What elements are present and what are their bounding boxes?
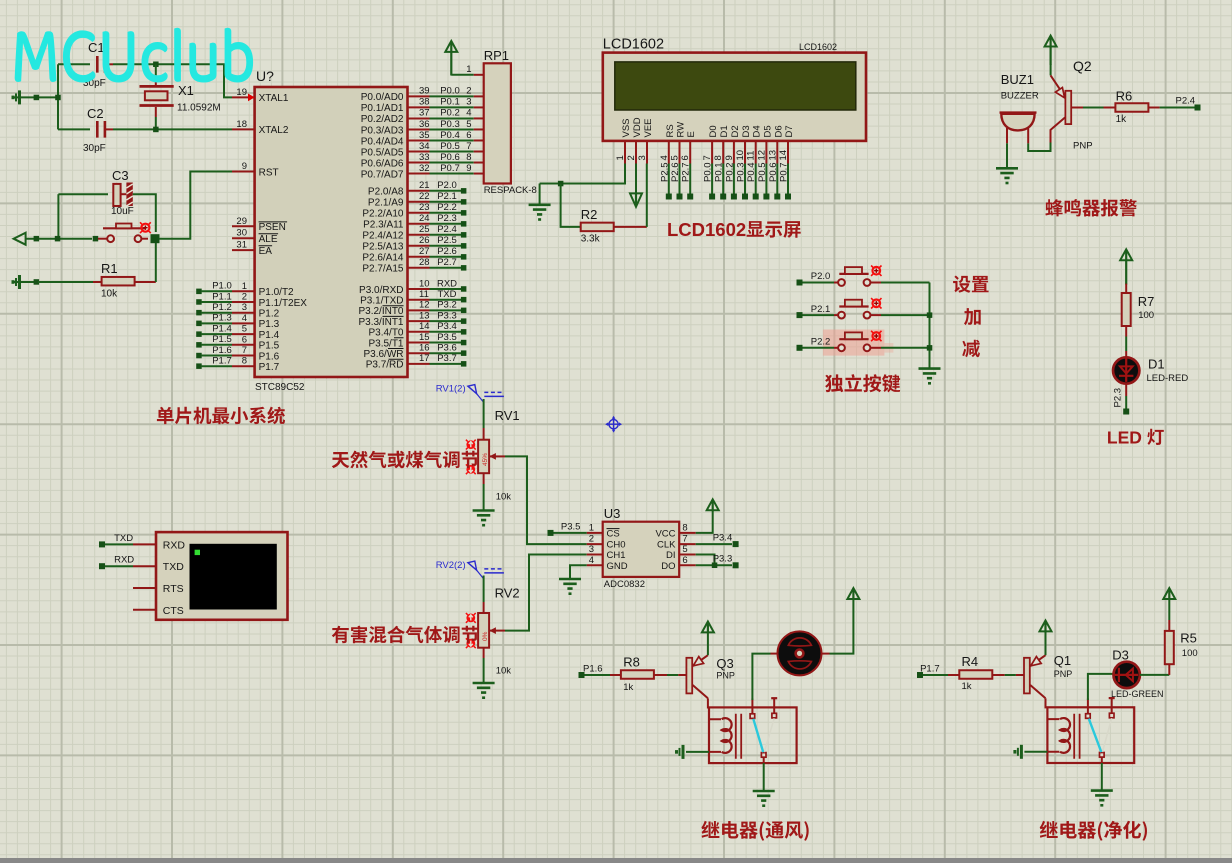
push button (P2.1) — [803, 300, 882, 319]
ground (U3) — [559, 579, 581, 595]
svg-text:LED: LED — [1107, 428, 1142, 448]
svg-text:1k: 1k — [1116, 114, 1128, 125]
svg-text:5: 5 — [682, 544, 687, 555]
svg-text:BUZ1: BUZ1 — [1001, 72, 1034, 87]
resistor R8 1k — [585, 655, 687, 694]
svg-text:P0.4: P0.4 — [746, 162, 757, 182]
svg-text:9: 9 — [724, 155, 735, 160]
svg-text:Q1: Q1 — [1054, 653, 1071, 668]
push button (P2.2) — [803, 332, 882, 351]
svg-text:CLK: CLK — [657, 540, 676, 551]
interactive marker (button P2.2) — [871, 331, 881, 341]
svg-text:P0.0/AD0: P0.0/AD0 — [361, 92, 404, 103]
svg-text:P2.0: P2.0 — [437, 180, 457, 191]
ground (RV1) — [473, 511, 495, 527]
svg-text:Q2: Q2 — [1073, 58, 1092, 74]
label LED灯 — [1107, 428, 1164, 448]
crystal X1 — [140, 64, 221, 129]
svg-text:P0.1: P0.1 — [714, 162, 725, 182]
svg-text:RV1: RV1 — [495, 408, 520, 423]
resistor R7 100 — [1122, 284, 1155, 337]
relay (purify) body — [1047, 707, 1134, 763]
push button (reset) — [98, 224, 148, 243]
svg-text:2: 2 — [242, 292, 247, 303]
svg-text:3.3k: 3.3k — [581, 234, 601, 245]
svg-text:15: 15 — [419, 332, 430, 343]
node P2.1 — [797, 304, 831, 318]
svg-text:28: 28 — [419, 257, 430, 268]
svg-text:RTS: RTS — [163, 583, 184, 595]
wire C1 to XTAL1 — [113, 62, 232, 98]
power terminal (Q3) — [702, 622, 714, 656]
ground (relay 2) — [1091, 791, 1113, 807]
svg-text:P1.0: P1.0 — [212, 281, 232, 292]
relay (purify) switch blade — [1089, 718, 1112, 752]
svg-text:30pF: 30pF — [83, 143, 106, 154]
svg-text:23: 23 — [419, 202, 430, 213]
power terminal (Q1) — [1040, 621, 1052, 656]
selection highlight (button 3) — [823, 330, 885, 356]
ground (relay 1) — [753, 791, 775, 807]
svg-text:27: 27 — [419, 246, 430, 257]
svg-text:P1.1/T2EX: P1.1/T2EX — [259, 298, 308, 309]
svg-text:P2.3: P2.3 — [1113, 388, 1124, 408]
svg-text:DI: DI — [666, 550, 676, 561]
node RXD — [99, 555, 134, 570]
svg-text:13: 13 — [419, 310, 430, 321]
svg-text:11: 11 — [419, 289, 429, 300]
wire R7 to D1 — [1125, 337, 1127, 352]
motor (fan) — [771, 631, 830, 675]
svg-text:RXD: RXD — [114, 555, 134, 566]
svg-text:U3: U3 — [604, 506, 621, 521]
svg-text:5: 5 — [242, 324, 247, 335]
svg-text:RXD: RXD — [437, 278, 457, 289]
svg-text:P0.6: P0.6 — [768, 162, 779, 182]
wire Q2 collector to buzzer — [1028, 143, 1050, 152]
svg-text:P3.5/T1: P3.5/T1 — [368, 338, 403, 349]
LED D3 LED-GREEN — [1111, 648, 1164, 700]
svg-text:21: 21 — [419, 180, 430, 191]
svg-text:14: 14 — [778, 150, 789, 161]
svg-text:8: 8 — [242, 356, 247, 367]
svg-text:RST: RST — [259, 167, 279, 178]
svg-text:PNP: PNP — [716, 671, 735, 681]
svg-text:P0.5: P0.5 — [757, 162, 768, 182]
power terminal (U3 VCC) — [696, 499, 719, 533]
svg-text:100: 100 — [1182, 648, 1198, 659]
svg-text:7: 7 — [466, 141, 471, 152]
svg-text:BUZZER: BUZZER — [1001, 91, 1039, 102]
label 设置 — [953, 276, 989, 293]
svg-text:1: 1 — [466, 64, 471, 75]
svg-text:P2.2: P2.2 — [437, 202, 457, 213]
svg-text:LCD1602: LCD1602 — [603, 37, 664, 53]
svg-text:5: 5 — [466, 119, 471, 130]
svg-text:P1.1: P1.1 — [212, 291, 232, 302]
wire P2 net stubs — [408, 180, 467, 271]
svg-text:34: 34 — [419, 141, 430, 152]
svg-text:E: E — [686, 131, 697, 137]
svg-text:D4: D4 — [752, 125, 763, 137]
svg-text:R1: R1 — [101, 261, 118, 276]
svg-text:29: 29 — [236, 216, 247, 227]
svg-text:35: 35 — [419, 130, 430, 141]
svg-text:P2.6/A14: P2.6/A14 — [362, 253, 404, 264]
transistor Q1 PNP — [1024, 653, 1072, 698]
svg-text:R4: R4 — [962, 654, 979, 669]
svg-text:32: 32 — [419, 163, 430, 174]
svg-text:P2.5/A13: P2.5/A13 — [362, 242, 404, 253]
resistor R6 1k — [1071, 89, 1194, 126]
svg-text:P0.3/AD3: P0.3/AD3 — [361, 125, 404, 136]
virtual terminal — [133, 532, 288, 620]
svg-text:8: 8 — [682, 522, 687, 533]
svg-text:C2: C2 — [87, 106, 104, 121]
LCD1602 display — [603, 37, 866, 141]
svg-text:P3.3/INT1: P3.3/INT1 — [358, 317, 403, 328]
label 单片机最小系统 — [157, 407, 285, 425]
power terminal (RP1) — [445, 41, 457, 76]
interactive marker (reset button) — [140, 222, 151, 233]
svg-text:P0.7: P0.7 — [779, 162, 790, 182]
svg-text:19: 19 — [236, 87, 247, 98]
svg-text:7: 7 — [242, 345, 247, 356]
svg-text:CTS: CTS — [163, 605, 184, 617]
wire relay1 common to ground — [763, 763, 765, 791]
wire RV1 to ground — [483, 484, 485, 510]
svg-text:P0.4: P0.4 — [440, 130, 460, 141]
svg-text:4: 4 — [659, 155, 670, 160]
svg-text:D5: D5 — [762, 125, 773, 137]
svg-text:P2.2/A10: P2.2/A10 — [362, 209, 404, 220]
svg-text:P2.3: P2.3 — [437, 213, 457, 224]
svg-text:PNP: PNP — [1073, 141, 1093, 152]
svg-text:P3.6: P3.6 — [437, 343, 457, 354]
svg-text:4: 4 — [589, 555, 594, 566]
wire relay2 common to ground — [1101, 763, 1103, 791]
buzzer BUZ1 — [1000, 72, 1039, 143]
wire P3 net stubs — [408, 278, 467, 366]
svg-text:P2.4: P2.4 — [1176, 96, 1196, 107]
svg-text:26: 26 — [419, 235, 430, 246]
svg-text:P0.2/AD2: P0.2/AD2 — [361, 114, 404, 125]
svg-text:P2.3/A11: P2.3/A11 — [363, 220, 404, 231]
node P2.0 — [797, 271, 831, 285]
svg-text:P3.5: P3.5 — [437, 332, 457, 343]
svg-text:D2: D2 — [730, 125, 741, 137]
relay (fan) contacts — [750, 698, 777, 763]
svg-text:ADC0832: ADC0832 — [604, 579, 645, 590]
svg-text:LED-RED: LED-RED — [1147, 373, 1189, 384]
svg-text:10k: 10k — [496, 666, 512, 677]
svg-text:P0.5: P0.5 — [440, 141, 460, 152]
svg-text:11: 11 — [746, 151, 757, 161]
svg-text:P3.7: P3.7 — [437, 353, 457, 364]
wire buzzer to ground — [1006, 143, 1008, 168]
svg-text:LED-GREEN: LED-GREEN — [1111, 689, 1164, 699]
svg-text:P3.3: P3.3 — [437, 310, 457, 321]
svg-text:TXD: TXD — [438, 289, 457, 300]
svg-text:6: 6 — [466, 130, 471, 141]
svg-text:12: 12 — [756, 150, 767, 161]
node P3.4 (CLK) — [696, 533, 739, 548]
svg-text:P1.7: P1.7 — [920, 664, 940, 675]
svg-text:5: 5 — [670, 155, 681, 160]
svg-text:P1.5: P1.5 — [259, 341, 280, 352]
svg-text:R2: R2 — [581, 207, 598, 222]
svg-text:2: 2 — [466, 86, 471, 97]
svg-text:XTAL2: XTAL2 — [259, 125, 289, 136]
power terminal (buzzer) — [1045, 36, 1057, 65]
potentiometer RV1 10k — [478, 399, 520, 503]
svg-text:RV2(2): RV2(2) — [436, 560, 466, 571]
LED D1 LED-RED — [1113, 351, 1188, 396]
svg-text:P0.3: P0.3 — [736, 162, 747, 182]
svg-text:P0.5/AD5: P0.5/AD5 — [361, 147, 404, 158]
svg-text:P3.4: P3.4 — [437, 321, 457, 332]
svg-text:U?: U? — [256, 68, 274, 84]
svg-text:P3.3: P3.3 — [713, 554, 733, 565]
svg-text:P0.4/AD4: P0.4/AD4 — [361, 136, 404, 147]
svg-text:36: 36 — [419, 119, 430, 130]
U? left pin names and numbers — [232, 87, 307, 373]
wire P0 bus U? to RP1 — [408, 86, 474, 174]
wire P1.x net stubs — [196, 281, 232, 369]
svg-text:D0: D0 — [708, 125, 719, 137]
interactive marker (button P2.1) — [871, 298, 881, 308]
svg-text:11.0592M: 11.0592M — [177, 103, 221, 114]
ground (LCD VSS) — [529, 205, 551, 221]
wire reset net left — [26, 194, 98, 241]
node P2.2 — [797, 337, 831, 351]
svg-text:P1.4: P1.4 — [259, 330, 280, 341]
svg-text:P1.6: P1.6 — [583, 664, 603, 675]
svg-text:9: 9 — [466, 163, 471, 174]
svg-text:6: 6 — [682, 555, 687, 566]
resistor pack RP1 RESPACK-8 — [451, 48, 537, 196]
svg-text:P2.6: P2.6 — [670, 162, 681, 182]
svg-text:P2.0: P2.0 — [811, 271, 831, 282]
node P1.7 — [917, 664, 940, 679]
capacitor C3 (10uF electrolytic) — [58, 168, 155, 232]
svg-text:D7: D7 — [784, 125, 795, 137]
svg-text:TXD: TXD — [114, 533, 133, 544]
svg-text:P2.7: P2.7 — [437, 257, 457, 268]
svg-text:P2.1: P2.1 — [437, 191, 457, 202]
ground (buzzer) — [996, 168, 1018, 184]
svg-text:17: 17 — [419, 353, 430, 364]
wire RV2 wiper to U3 CH1 — [505, 555, 587, 631]
svg-text:TXD: TXD — [163, 561, 184, 573]
svg-text:P2.4/A12: P2.4/A12 — [362, 231, 404, 242]
wire C2 to XTAL2 — [113, 127, 232, 133]
transistor Q2 PNP — [1051, 58, 1093, 152]
svg-text:P1.2: P1.2 — [259, 309, 280, 320]
svg-text:CH1: CH1 — [607, 550, 626, 561]
node P1.6 — [579, 664, 603, 679]
interactive marker (button P2.0) — [871, 266, 881, 276]
svg-text:10k: 10k — [496, 492, 512, 503]
svg-text:8: 8 — [713, 155, 724, 160]
svg-text:CH0: CH0 — [607, 540, 626, 551]
svg-text:VSS: VSS — [621, 118, 632, 137]
svg-text:RXD: RXD — [163, 539, 186, 551]
svg-text:D3: D3 — [1112, 648, 1129, 663]
svg-text:1k: 1k — [962, 681, 972, 692]
svg-text:P3.6/WR: P3.6/WR — [363, 349, 403, 360]
wire button ground bus — [927, 283, 933, 369]
svg-text:VCC: VCC — [655, 529, 675, 540]
svg-text:P0.0: P0.0 — [703, 162, 714, 182]
relay (fan) body — [709, 707, 797, 763]
svg-text:9: 9 — [242, 161, 247, 172]
svg-text:P2.7/A15: P2.7/A15 — [362, 264, 404, 275]
power terminal (R5) — [1163, 588, 1175, 620]
svg-text:P2.2: P2.2 — [811, 337, 831, 348]
svg-text:8: 8 — [466, 152, 471, 163]
svg-text:PNP: PNP — [1054, 669, 1073, 679]
svg-text:18: 18 — [236, 119, 247, 130]
svg-text:D3: D3 — [741, 125, 752, 137]
svg-text:LCD1602: LCD1602 — [799, 42, 837, 52]
svg-text:D1: D1 — [1148, 357, 1165, 372]
svg-text:P2.6: P2.6 — [437, 246, 457, 257]
label 天然气或煤气调节 — [332, 451, 479, 469]
wire button P2.0 to bus — [881, 282, 930, 284]
wire relay2 contact to D3 — [1088, 674, 1113, 700]
svg-text:6: 6 — [680, 155, 691, 160]
wire LCD VSS to ground — [540, 164, 625, 205]
svg-text:12: 12 — [419, 300, 430, 311]
svg-text:P1.5: P1.5 — [212, 334, 232, 345]
svg-text:P0.2: P0.2 — [724, 162, 735, 182]
svg-text:RW: RW — [676, 122, 687, 138]
ground terminal (relay 2 coil) — [1013, 745, 1047, 759]
svg-text:39: 39 — [419, 86, 430, 97]
wire motor to power — [830, 600, 854, 654]
node reset junction — [151, 234, 160, 243]
push button (P2.0) — [803, 267, 882, 286]
wire crystal-gnd net — [15, 64, 61, 129]
svg-text:1: 1 — [589, 522, 594, 533]
svg-text:P2.7: P2.7 — [681, 162, 692, 182]
svg-text:C3: C3 — [112, 168, 129, 183]
resistor R1 10k — [12, 243, 156, 300]
svg-text:P0.7: P0.7 — [440, 163, 460, 174]
wire motor to relay contact — [752, 654, 770, 700]
svg-text:P2.0/A8: P2.0/A8 — [368, 187, 404, 198]
svg-text:P3.4/T0: P3.4/T0 — [368, 328, 403, 339]
svg-text:P1.7: P1.7 — [212, 356, 232, 367]
svg-text:P3.0/RXD: P3.0/RXD — [359, 285, 403, 296]
svg-text:P3.2/INT0: P3.2/INT0 — [358, 306, 403, 317]
svg-text:1: 1 — [615, 155, 626, 160]
svg-text:ALE: ALE — [259, 234, 278, 245]
svg-text:0%: 0% — [482, 631, 489, 641]
svg-text:10: 10 — [419, 278, 430, 289]
svg-text:P3.1/TXD: P3.1/TXD — [360, 296, 403, 307]
power terminal arrow (left) — [14, 233, 26, 245]
svg-text:22: 22 — [419, 191, 430, 202]
svg-text:RP1: RP1 — [484, 48, 509, 63]
U? right pin names P0/P2/P3 — [358, 92, 403, 371]
label 蜂鸣器报警 — [1045, 199, 1137, 217]
svg-text:P1.0/T2: P1.0/T2 — [259, 287, 294, 298]
svg-text:D6: D6 — [773, 125, 784, 137]
svg-text:D1: D1 — [719, 125, 730, 137]
svg-text:38: 38 — [419, 97, 430, 108]
svg-text:45%: 45% — [482, 453, 489, 466]
svg-text:P1.3: P1.3 — [259, 319, 280, 330]
node TXD — [99, 533, 133, 548]
svg-text:EA: EA — [259, 246, 273, 257]
node P3.3 (DI/DO) — [696, 554, 739, 569]
svg-text:P0.6: P0.6 — [440, 152, 460, 163]
svg-text:7: 7 — [682, 534, 687, 545]
potentiometer RV2 10k — [478, 576, 520, 677]
ground (RV2) — [473, 683, 495, 699]
svg-text:XTAL1: XTAL1 — [259, 93, 289, 104]
svg-text:10uF: 10uF — [111, 206, 134, 217]
svg-text:Q3: Q3 — [716, 656, 733, 671]
wire RV1 wiper to U3 CH0 — [505, 456, 587, 544]
resistor R5 100 — [1140, 620, 1198, 675]
svg-text:P2.5: P2.5 — [437, 235, 457, 246]
svg-text:GND: GND — [607, 561, 628, 572]
voltage probe RV2(2) — [436, 560, 504, 579]
svg-text:3: 3 — [589, 544, 594, 555]
svg-text:P0.7/AD7: P0.7/AD7 — [361, 169, 404, 180]
transistor Q3 PNP — [686, 655, 735, 698]
svg-text:7: 7 — [702, 155, 713, 160]
ADC U3 ADC0832 — [587, 506, 696, 590]
relay (purify) contacts — [1086, 698, 1115, 763]
svg-text:DO: DO — [661, 561, 675, 572]
label 加 — [964, 308, 981, 325]
svg-text:P0.2: P0.2 — [440, 108, 460, 119]
MCUclub logo — [16, 29, 253, 82]
svg-text:33: 33 — [419, 152, 430, 163]
svg-text:P0.1/AD1: P0.1/AD1 — [361, 103, 404, 114]
svg-text:3: 3 — [242, 302, 247, 313]
svg-text:P3.5: P3.5 — [561, 522, 581, 533]
svg-text:LCD1602: LCD1602 — [667, 219, 746, 240]
svg-text:C1: C1 — [88, 40, 105, 55]
svg-text:2: 2 — [589, 534, 594, 545]
svg-text:PSEN: PSEN — [259, 222, 286, 233]
svg-text:P1.7: P1.7 — [259, 362, 280, 373]
wire button P2.1 to bus — [881, 314, 930, 316]
svg-text:P0.6/AD6: P0.6/AD6 — [361, 158, 404, 169]
svg-text:P1.6: P1.6 — [259, 351, 280, 362]
svg-text:10: 10 — [735, 150, 746, 161]
node P2.3 — [1113, 388, 1130, 415]
svg-text:P1.2: P1.2 — [212, 302, 232, 313]
svg-text:CS: CS — [607, 529, 620, 540]
wire Q1 collector to relay — [1045, 698, 1047, 708]
svg-text:RV2: RV2 — [495, 586, 520, 601]
svg-text:2: 2 — [626, 155, 637, 160]
svg-text:37: 37 — [419, 108, 430, 119]
wire RV2 to ground — [483, 658, 485, 683]
svg-text:P1.4: P1.4 — [212, 323, 232, 334]
svg-text:30: 30 — [236, 228, 247, 239]
svg-text:P1.3: P1.3 — [212, 313, 232, 324]
svg-text:P3.4: P3.4 — [713, 533, 733, 544]
ground (buttons) — [919, 369, 941, 385]
node P3.5 — [548, 522, 587, 536]
